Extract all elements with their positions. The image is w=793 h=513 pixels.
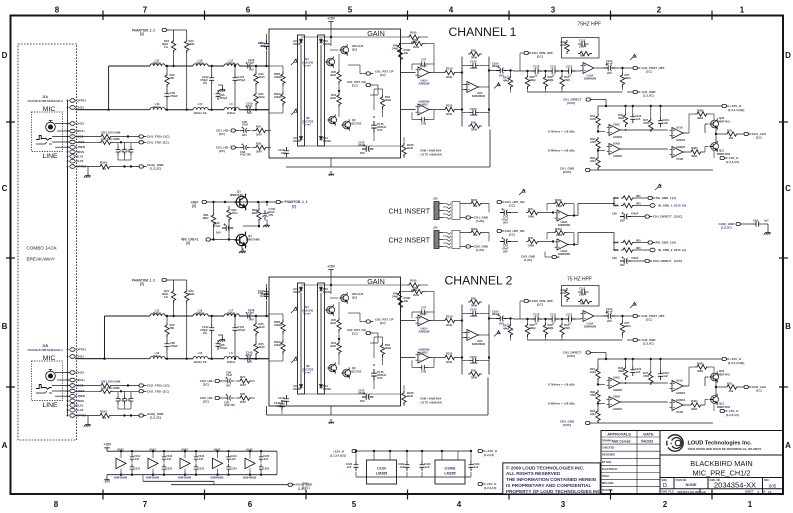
svg-text:50V: 50V <box>249 67 254 71</box>
resistor R85 2k49 top (channel 1) <box>462 49 482 60</box>
hpf feedback box (channel 2) <box>562 286 600 307</box>
svg-text:LINE: LINE <box>42 153 58 160</box>
svg-text:CR1 100 OHM: CR1 100 OHM <box>101 380 121 384</box>
svg-text:R326: R326 <box>613 249 620 252</box>
svg-text:24k8: 24k8 <box>556 204 563 208</box>
svg-text:8.48Vrms = +28 dBu: 8.48Vrms = +28 dBu <box>548 402 575 406</box>
svg-text:49k9: 49k9 <box>691 407 698 411</box>
svg-text:Q13: Q13 <box>352 47 358 51</box>
capacitor C113 230PF in hpf box (channel 2) <box>578 286 592 305</box>
svg-text:2k40: 2k40 <box>259 345 266 349</box>
resistor R103 49k9 (channel 1) <box>503 69 513 92</box>
svg-text:24k9: 24k9 <box>392 47 399 51</box>
svg-text:+22 TO +60dB 6H4: +22 TO +60dB 6H4 <box>420 154 442 157</box>
resistor R160 0R0 sense (channel 2) <box>613 240 648 245</box>
connector CH2_GND [1,3,5C] <box>528 338 656 346</box>
svg-text:68 uF: 68 uF <box>606 310 613 314</box>
svg-text:+15V: +15V <box>104 443 112 447</box>
svg-text:[1,2,3,4,5(2)]: [1,2,3,4,5(2)] <box>728 108 744 112</box>
svg-text:0R0: 0R0 <box>636 240 641 243</box>
svg-text:3: 3 <box>561 500 566 509</box>
svg-text:CH1_DIRECT: CH1_DIRECT <box>653 215 672 219</box>
svg-text:FINAL: FINAL <box>602 475 610 478</box>
svg-text:NJM4580M: NJM4580M <box>584 78 596 81</box>
svg-text:4: 4 <box>449 6 454 15</box>
top signal rail (channel 1) <box>598 105 722 118</box>
svg-text:1k0hm: 1k0hm <box>227 311 236 315</box>
wire - ch1 gain to post block lower <box>401 109 416 111</box>
svg-text:R160: R160 <box>613 242 620 245</box>
inductor L6 (channel 1) <box>224 102 269 115</box>
power rail - reference <box>371 450 458 452</box>
svg-text:U91B: U91B <box>421 103 428 107</box>
wire - ch2 filter to gain box rails <box>251 316 269 359</box>
svg-text:1k62: 1k62 <box>590 370 597 374</box>
ground flag above output (channel 1) <box>630 54 637 60</box>
transistor Q3 2SA1145 (channel 2) <box>330 292 364 304</box>
svg-text:4k32: 4k32 <box>330 344 337 348</box>
svg-text:[4]: [4] <box>192 204 196 208</box>
svg-text:LOUD Technologies Inc.: LOUD Technologies Inc. <box>688 441 753 447</box>
svg-text:24k8: 24k8 <box>556 233 563 237</box>
capacitor C114 68uF (channel 1) <box>596 59 620 75</box>
wire - diode ladder rails (channel 2) <box>298 283 325 394</box>
resistor R110 2k49 (channel 2) <box>429 352 462 365</box>
svg-text:47k5: 47k5 <box>564 326 571 330</box>
title block outline <box>601 431 783 495</box>
svg-text:47uF: 47uF <box>242 123 249 127</box>
svg-text:230PF: 230PF <box>470 361 478 365</box>
svg-text:R301: R301 <box>471 198 478 202</box>
resistor R141 0.0 <box>75 160 139 170</box>
svg-text:1.5pF: 1.5pF <box>420 312 427 316</box>
connector CH1_POT_UP [1C] <box>360 70 394 78</box>
net flag A (channel 2) <box>291 306 299 313</box>
svg-text:1%: 1% <box>164 45 169 49</box>
resistor R103 49k9 (channel 2) <box>503 317 513 340</box>
note - gain setting (channel 1) <box>420 150 442 157</box>
op-amp U10A NJM4580M (channel 1) <box>581 63 597 81</box>
svg-text:2SA1145: 2SA1145 <box>352 44 364 48</box>
transistor Q4 2SA1145 low-noise (channel 2) <box>302 304 335 316</box>
svg-text:0R0: 0R0 <box>636 203 641 206</box>
svg-text:2k40: 2k40 <box>259 95 266 99</box>
capacitor C80 470pF (channel 2) <box>164 335 178 360</box>
svg-text:47uF: 47uF <box>358 391 365 395</box>
svg-text:[2C]: [2C] <box>219 132 225 136</box>
resistor R161 0R0 sense2 (channel 1) <box>613 203 650 208</box>
op-amp U51B LM2904 driver (channel 1) <box>670 146 686 161</box>
svg-text:470pF: 470pF <box>170 344 178 348</box>
svg-text:CHANNEL 1: CHANNEL 1 <box>449 25 517 39</box>
resistor R402 24k8 upper (channel 1) <box>547 198 574 211</box>
connector CH1_HI2+ [2C] <box>216 129 238 137</box>
capacitor C343 .1uF ref <box>419 450 430 477</box>
svg-text:C41: C41 <box>120 150 125 153</box>
svg-text:R20: R20 <box>727 382 732 386</box>
svg-text:470uF: 470uF <box>631 212 639 216</box>
ground - phantom filter <box>263 223 270 228</box>
svg-text:2k49: 2k49 <box>413 45 420 49</box>
svg-text:[2C]: [2C] <box>203 400 209 404</box>
connector CH1_TRS- [1C] <box>139 140 169 144</box>
power -15V below gain stage (channel 2) <box>328 406 336 425</box>
svg-text:C90: C90 <box>612 212 617 216</box>
resistor R484 49k9 (channel 1) <box>683 146 705 158</box>
resistor R39 2k49 (channel 1) <box>400 38 434 64</box>
approvals table <box>601 431 660 495</box>
gain stage outline box (channel 2) <box>269 277 401 406</box>
diode D31 (channel 2) <box>319 383 331 391</box>
inductor L15 (channel 1) <box>193 102 224 115</box>
inductor L22 3k0hm (channel 2) <box>150 309 193 317</box>
connector CH1()_GND chain end <box>288 483 312 491</box>
svg-text:8: 8 <box>54 500 59 509</box>
resistor R241 0.0 <box>75 409 139 419</box>
svg-text:MASTER: MASTER <box>602 489 613 492</box>
svg-text:B: B <box>296 356 299 360</box>
svg-text:.1uF: .1uF <box>473 465 479 469</box>
svg-text:R26: R26 <box>240 392 245 396</box>
transistor Q6 2SC2705 (channel 2) <box>342 366 362 379</box>
svg-text:24k9: 24k9 <box>392 295 399 299</box>
capacitor C106 22p (channel 2) <box>278 395 289 405</box>
svg-text:ELECTRICAL: ELECTRICAL <box>602 468 618 471</box>
transistor Q20 MMBT4401 (channel 1) <box>710 114 731 130</box>
resistor R82 27k4 <box>227 206 238 224</box>
connector CH2_POT_DN [1C] <box>347 328 378 335</box>
op-amp U10A NJM4580M (channel 2) <box>581 311 597 329</box>
svg-text:-15V_H: -15V_H <box>486 482 496 486</box>
svg-text:ALL RIGHTS RESERVED: ALL RIGHTS RESERVED <box>506 471 561 476</box>
resistor R24 6k81 (channel 2) <box>162 280 176 317</box>
svg-text:U50C: U50C <box>613 123 620 127</box>
svg-text:24k98: 24k98 <box>274 75 282 79</box>
svg-text:C41: C41 <box>126 150 131 153</box>
capacitor C80 470pF (channel 1) <box>164 85 178 111</box>
svg-text:SIZE: SIZE <box>662 479 668 482</box>
svg-text:68 uF: 68 uF <box>606 62 613 66</box>
svg-text:26V: 26V <box>607 319 612 323</box>
diode D32 (channel 2) <box>319 286 331 294</box>
svg-text:GND: GND <box>302 482 309 486</box>
connector CH2_TRS+ [1C] <box>139 384 169 388</box>
svg-text:[1C]: [1C] <box>537 54 543 58</box>
svg-text:CHS1: CHS1 <box>76 106 84 110</box>
svg-text:Q4: Q4 <box>305 305 309 309</box>
svg-text:B: B <box>2 322 8 331</box>
resistor R46 49k vertical (channel 1) <box>618 113 628 127</box>
svg-text:6: 6 <box>248 500 253 509</box>
resistor R23 6k81 (channel 1) <box>174 30 195 111</box>
resistor R61 49k9 shunt2 (channel 2) <box>560 318 571 340</box>
wire - ch1 gain to post block upper <box>401 72 416 74</box>
svg-text:COAXIALB-TRS-NC3FAAH1-9: COAXIALB-TRS-NC3FAAH1-9 <box>28 349 64 352</box>
svg-text:1k0hm 2%: 1k0hm 2% <box>193 111 207 115</box>
svg-text:R24: R24 <box>256 125 261 129</box>
svg-text:U51B: U51B <box>676 410 683 414</box>
connector CH2_HI2+ [2C] <box>200 379 222 387</box>
svg-text:1k0hm 2%: 1k0hm 2% <box>193 360 207 364</box>
resistor R62 49k9 input (channel 1) <box>525 70 536 92</box>
svg-text:NJM4580M: NJM4580M <box>472 343 485 346</box>
capacitor C96 47uF 26V (channel 1) <box>238 120 250 137</box>
top signal rail (channel 2) <box>598 358 722 371</box>
svg-text:A: A <box>2 441 8 450</box>
svg-text:50V: 50V <box>247 111 252 115</box>
op-amp U9C NJM4580M (channel 2) <box>465 330 485 347</box>
svg-text:L6: L6 <box>229 351 233 355</box>
connector CH2_POT_UP [1C] <box>360 318 394 326</box>
svg-text:R341: R341 <box>100 160 107 164</box>
svg-text:A: A <box>785 441 791 450</box>
svg-text:MMBT4401: MMBT4401 <box>717 120 731 123</box>
svg-text:OPTR1: OPTR1 <box>76 99 86 103</box>
capacitor C102 470pF 2% (channel 1) <box>200 65 214 111</box>
svg-text:R326: R326 <box>613 205 620 208</box>
svg-text:MIC_PRE_CH1/2: MIC_PRE_CH1/2 <box>693 468 751 477</box>
svg-text:C322: C322 <box>166 467 173 471</box>
inductor L22 3k0hm (channel 1) <box>150 59 193 67</box>
svg-text:GAIN = 60dB MAX: GAIN = 60dB MAX <box>420 150 442 153</box>
capacitor C108 47pF 50V (channel 2) <box>244 351 254 365</box>
resistor R60 49k9 shunt1 (channel 2) <box>543 318 554 340</box>
op-amp U9C NJM4580M (channel 1) <box>465 82 485 99</box>
svg-text:R106: R106 <box>410 31 417 35</box>
svg-text:[1C]: [1C] <box>537 302 543 306</box>
power -15V below gain stage (channel 1) <box>328 158 336 177</box>
svg-text:8.48Vrms = +28 dBu: 8.48Vrms = +28 dBu <box>548 149 575 153</box>
svg-text:R26: R26 <box>256 142 261 146</box>
resistor R251 100 OHM <box>75 380 139 388</box>
svg-text:R110: R110 <box>446 352 453 356</box>
resistor R41 6k7 (channel 2) <box>274 314 285 334</box>
svg-text:C: C <box>785 184 791 193</box>
resistor R151 100 OHM <box>75 131 139 139</box>
svg-text:49k9: 49k9 <box>530 78 537 82</box>
svg-text:.1uF: .1uF <box>166 457 172 461</box>
svg-text:*lo-no*: *lo-no* <box>303 313 311 316</box>
resistor R301 20k (channel 2) <box>460 227 489 237</box>
resistor R93 22k1 (channel 2) <box>590 402 600 423</box>
svg-text:3k0hm: 3k0hm <box>153 61 162 65</box>
connector CH1()_GND <box>139 163 164 171</box>
capacitor C320 .1uF bypass2 <box>130 464 141 476</box>
svg-text:DESIGNED: DESIGNED <box>602 454 615 457</box>
svg-text:47uF 26V: 47uF 26V <box>240 154 251 157</box>
svg-text:MMBT5401: MMBT5401 <box>230 193 244 197</box>
capacitor C241 bank <box>116 391 134 409</box>
svg-text:13: 13 <box>768 490 772 494</box>
svg-text:6.7kVrms = +18 dBu: 6.7kVrms = +18 dBu <box>548 383 575 387</box>
svg-text:CH1_HPF_ON: CH1_HPF_ON <box>505 200 524 204</box>
svg-text:Q13: Q13 <box>352 295 358 299</box>
connector +15V_H right <box>458 449 497 457</box>
op-amp U50C LM2904 comparator (channel 1) <box>598 123 623 140</box>
svg-text:49k9: 49k9 <box>697 116 704 120</box>
connector CH1_GND insert (channel 1) <box>460 216 488 224</box>
XLR mic connector (channel 2) <box>46 369 56 380</box>
connector CH2_HPF_ON [1C] <box>489 229 524 237</box>
svg-text:[1,2,3C]: [1,2,3C] <box>150 416 161 420</box>
combo jack breakaway dashed boundary <box>18 44 77 440</box>
connector CH1_POST_HPF [1C] <box>620 66 665 74</box>
svg-text:5: 5 <box>348 6 353 15</box>
svg-text:230PF: 230PF <box>579 45 587 49</box>
svg-text:2034354-XX: 2034354-XX <box>714 480 756 489</box>
svg-text:2%: 2% <box>203 331 208 335</box>
svg-text:LM2904: LM2904 <box>676 399 686 402</box>
svg-text:-15V: -15V <box>104 480 112 484</box>
svg-text:A: A <box>296 58 299 62</box>
svg-text:CHS1: CHS1 <box>76 355 84 359</box>
op-amp U50C LM2904 comparator (channel 2) <box>598 376 623 393</box>
connector IN_GND_2_2010 [4] <box>650 248 686 252</box>
svg-text:786: 786 <box>170 76 175 80</box>
connector CH1_PRE_HPF [1C] <box>520 51 553 71</box>
svg-text:LM2904: LM2904 <box>676 139 686 142</box>
op-amp U9A NJM2068 (channel 1) <box>416 67 432 86</box>
svg-text:CH2_POST_HPF: CH2_POST_HPF <box>642 314 665 318</box>
svg-text:U50D: U50D <box>613 142 620 146</box>
op-amp U62 supply symbol <box>114 447 127 479</box>
op-amp U50D LM2904 comparator (channel 2) <box>598 395 623 412</box>
resistor R34 4k32 (channel 1) <box>330 91 341 113</box>
svg-text:24k8: 24k8 <box>528 215 535 219</box>
svg-text:5: 5 <box>352 500 357 509</box>
svg-text:[1C]: [1C] <box>380 73 386 77</box>
svg-text:47k5: 47k5 <box>643 374 650 378</box>
svg-text:U50D: U50D <box>613 395 620 399</box>
svg-text:LM2904: LM2904 <box>613 408 623 411</box>
svg-text:[1C]: [1C] <box>352 83 358 87</box>
svg-text:C: C <box>2 184 8 193</box>
capacitor C145 47uF 50V (channel 2) <box>358 389 373 403</box>
capacitor C86 470pF 2% (channel 2) <box>212 340 228 350</box>
resistor R85 2k49 top (channel 2) <box>462 297 482 308</box>
svg-text:CH1_TRS+ [1C]: CH1_TRS+ [1C] <box>147 135 169 139</box>
svg-text:Q21: Q21 <box>719 402 725 406</box>
svg-text:47pF: 47pF <box>246 104 253 108</box>
svg-text:1k62: 1k62 <box>590 117 597 121</box>
svg-text:49k9: 49k9 <box>691 154 698 158</box>
svg-text:NJM4580M: NJM4580M <box>584 326 596 329</box>
svg-text:L31 100 OHM: L31 100 OHM <box>101 386 120 390</box>
svg-text:NONE: NONE <box>685 483 697 487</box>
capacitor C114 68uF (channel 2) <box>596 307 620 323</box>
svg-text:C324: C324 <box>231 467 238 471</box>
wire - comparator outputs (channel 1) <box>620 124 717 152</box>
svg-text:8: 8 <box>55 6 60 15</box>
svg-text:A: A <box>296 306 299 310</box>
resistor R23 6k81 (channel 2) <box>174 280 195 360</box>
capacitor C64 decoupling far right <box>719 218 771 234</box>
svg-text:[1,2C]: [1,2C] <box>476 248 484 252</box>
svg-text:R36: R36 <box>413 38 418 42</box>
capacitor C48 1.5pF (channel 2) <box>412 358 434 374</box>
svg-text:6k81: 6k81 <box>189 292 196 296</box>
resistor R93 22k1 (channel 1) <box>590 149 600 170</box>
capacitor C210 .1uF (channel 2) <box>630 366 641 376</box>
svg-text:2: 2 <box>758 490 760 494</box>
svg-text:[1,3,5C]: [1,3,5C] <box>643 94 654 98</box>
svg-text:IN_GND_1_2010: IN_GND_1_2010 <box>658 204 681 208</box>
LOUD Technologies logo <box>666 435 683 451</box>
svg-text:0R0: 0R0 <box>636 195 641 198</box>
capacitor C102 470pF 2% (channel 2) <box>200 315 214 360</box>
net flag B (channel 2) <box>291 356 299 363</box>
svg-text:47k5: 47k5 <box>564 78 571 82</box>
resistor R92 47k5 (channel 2) <box>590 383 600 409</box>
insert TRS jack J10 (channel 1) <box>433 197 460 220</box>
svg-text:NJM4580M: NJM4580M <box>114 476 127 479</box>
svg-text:470pF: 470pF <box>220 346 228 350</box>
svg-text:-20k: -20k <box>728 136 734 140</box>
svg-text:[1,2,3,4]: [1,2,3,4] <box>484 453 494 457</box>
resistor R47 49k9 out (channel 2) <box>620 315 631 338</box>
capacitor C323 .1uF bypass2 <box>226 464 237 476</box>
ground - jack shield channel 1 <box>84 167 91 178</box>
svg-text:C105: C105 <box>470 355 477 359</box>
svg-text:[1,2C]: [1,2C] <box>302 485 310 489</box>
svg-text:C48: C48 <box>421 370 426 374</box>
svg-text:470pF: 470pF <box>220 96 228 100</box>
svg-text:2k49: 2k49 <box>446 323 453 327</box>
svg-text:TRSS: TRSS <box>76 150 84 154</box>
transistor Q20 MMBT4401 (channel 2) <box>710 367 731 383</box>
svg-text:R64: R64 <box>580 302 585 306</box>
svg-text:R100: R100 <box>446 67 453 71</box>
svg-text:B: B <box>296 108 299 112</box>
svg-text:D: D <box>663 483 667 489</box>
svg-text:[3,5C]: [3,5C] <box>563 170 571 174</box>
svg-text:3k0hm: 3k0hm <box>153 354 162 358</box>
capacitor C104 230PF (channel 1) <box>469 60 480 70</box>
capacitor C105 230PF (channel 1) <box>469 107 480 117</box>
op-amp U62A NJM4580M insert buffer (channel 1) <box>552 204 578 228</box>
svg-text:U51A: U51A <box>676 126 683 130</box>
svg-text:Q4: Q4 <box>305 57 309 61</box>
resistor R40 24k8 (channel 1) <box>526 207 553 219</box>
capacitor C90 470uF direct (channel 2) <box>612 256 645 267</box>
svg-text:26V: 26V <box>242 133 247 137</box>
svg-text:49k9: 49k9 <box>530 326 537 330</box>
svg-text:CH1 INSERT: CH1 INSERT <box>389 209 431 216</box>
svg-text:.1uF: .1uF <box>346 465 352 469</box>
ground flag - post stage (channel 1) <box>494 83 501 89</box>
svg-text:SLV2: SLV2 <box>76 408 83 412</box>
svg-text:[1,2,3,4,5(2)]: [1,2,3,4,5(2)] <box>330 453 346 457</box>
svg-text:4k32: 4k32 <box>330 96 337 100</box>
svg-text:LM285: LM285 <box>376 472 387 476</box>
label COMBO JACK BREAKAWAY <box>27 246 58 262</box>
capacitor C146 3300uF 6.3V (channel 2) <box>371 369 386 389</box>
svg-text:0R0: 0R0 <box>636 247 641 250</box>
svg-text:C111: C111 <box>550 313 557 317</box>
capacitor C334 .1uF ref <box>468 451 479 477</box>
connector CH2_LED [1C] <box>744 385 767 393</box>
resistor R26 2k40 (channel 1) <box>254 65 265 88</box>
wire - bypass chain ground run <box>143 451 288 485</box>
svg-text:50V: 50V <box>360 151 365 155</box>
capacitor C310 .1uF bypass <box>130 450 141 462</box>
resistor R91 1k62 (channel 1) <box>590 114 600 131</box>
capacitor C10 47uF 26V insert (channel 2) <box>489 233 518 254</box>
svg-text:[1C]: [1C] <box>756 389 762 393</box>
op-amp U9A NJM2068 (channel 2) <box>416 315 432 334</box>
svg-text:J1A: J1A <box>42 95 49 99</box>
svg-text:[3,5C]: [3,5C] <box>563 423 571 427</box>
